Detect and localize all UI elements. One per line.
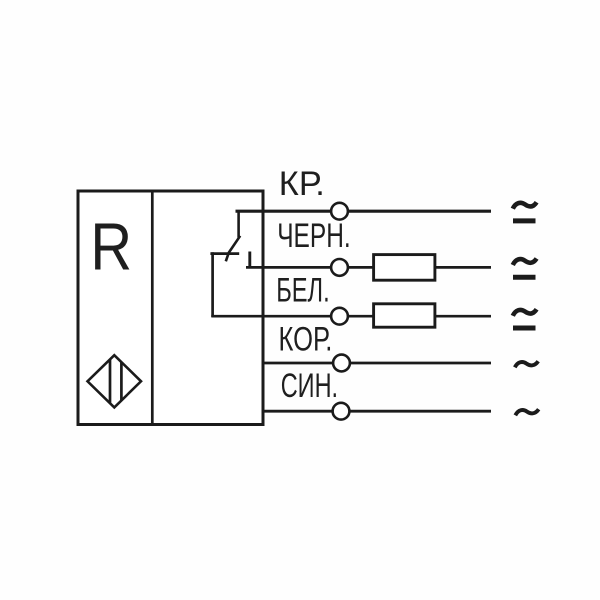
switch common bar bbox=[210, 252, 239, 255]
terminal circle on wire 4 bbox=[333, 355, 350, 372]
switch stub A from wire 1 bbox=[237, 211, 240, 238]
AC symbol (tilde) wire 4 bbox=[515, 361, 538, 367]
resistor R1 on wire 2 bbox=[374, 255, 435, 281]
switch common left leg bbox=[211, 252, 214, 317]
svg-text:СИН.: СИН. bbox=[281, 367, 338, 405]
svg-text:КР.: КР. bbox=[279, 165, 325, 203]
AC symbol (approx equal) wire 1 bbox=[513, 202, 537, 221]
wire 4 KOR (brown) bbox=[262, 362, 491, 365]
diamond inner line right bbox=[120, 363, 123, 401]
wire 5 SIN (blue) bbox=[262, 410, 491, 413]
non-contact sensor diamond symbol bbox=[88, 355, 142, 407]
terminal circle on wire 2 bbox=[331, 259, 348, 276]
wire 2 CHERN (black) bbox=[246, 266, 491, 269]
sensor body box bbox=[78, 191, 263, 425]
svg-text:R: R bbox=[90, 210, 132, 285]
wire 3 BEL (white) bbox=[211, 315, 491, 318]
svg-text:БЕЛ.: БЕЛ. bbox=[276, 271, 330, 309]
svg-text:ЧЕРН.: ЧЕРН. bbox=[277, 217, 351, 255]
terminal circle on wire 5 bbox=[333, 403, 350, 420]
svg-text:КОР.: КОР. bbox=[279, 320, 333, 358]
AC symbol (tilde) wire 5 bbox=[515, 409, 538, 415]
resistor R2 on wire 3 bbox=[374, 304, 435, 327]
sensor body divider bbox=[151, 191, 154, 425]
switch movable blade bbox=[226, 236, 240, 261]
AC symbol (approx equal) wire 3 bbox=[513, 309, 537, 328]
terminal circle on wire 1 bbox=[331, 203, 348, 220]
diamond inner line left bbox=[109, 360, 112, 403]
AC symbol (approx equal) wire 2 bbox=[513, 259, 537, 278]
switch stub B to wire 2 bbox=[248, 252, 251, 269]
wire 1 KR (red) bbox=[236, 210, 492, 213]
terminal circle on wire 3 bbox=[331, 308, 348, 325]
